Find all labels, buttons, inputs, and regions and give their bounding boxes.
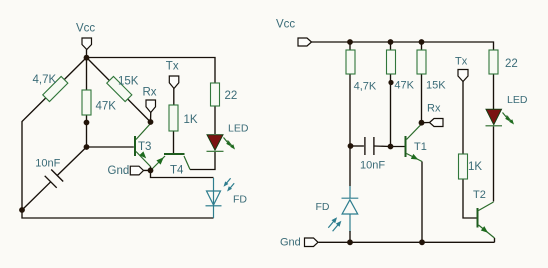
svg-text:10nF: 10nF (360, 160, 385, 172)
svg-text:22: 22 (505, 58, 518, 70)
svg-text:47K: 47K (394, 80, 414, 92)
svg-text:4,7K: 4,7K (33, 74, 57, 86)
svg-text:FD: FD (233, 194, 247, 206)
svg-text:47K: 47K (96, 100, 117, 112)
svg-text:T4: T4 (170, 165, 184, 177)
svg-text:Gnd: Gnd (108, 165, 130, 177)
svg-text:1K: 1K (184, 114, 198, 126)
svg-text:22: 22 (225, 90, 238, 102)
svg-text:T2: T2 (473, 189, 486, 201)
svg-text:10nF: 10nF (35, 157, 60, 169)
svg-text:Gnd: Gnd (280, 237, 301, 249)
svg-text:Vcc: Vcc (276, 19, 295, 31)
svg-text:FD: FD (316, 201, 330, 213)
svg-text:15K: 15K (118, 75, 139, 87)
svg-text:15K: 15K (426, 80, 446, 92)
svg-text:LED: LED (228, 123, 249, 135)
svg-text:LED: LED (507, 94, 528, 106)
svg-text:Rx: Rx (427, 103, 441, 115)
svg-text:T1: T1 (414, 141, 427, 153)
svg-text:Rx: Rx (143, 87, 157, 99)
svg-text:1K: 1K (468, 161, 482, 173)
svg-text:Vcc: Vcc (76, 23, 95, 35)
svg-text:T3: T3 (138, 141, 151, 153)
svg-text:4,7K: 4,7K (354, 81, 377, 93)
svg-text:Tx: Tx (455, 56, 468, 68)
svg-text:Tx: Tx (166, 61, 179, 73)
